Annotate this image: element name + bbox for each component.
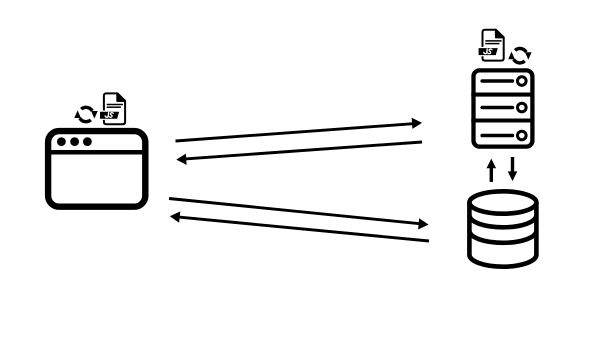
js file icon (server) — [478, 30, 504, 61]
arrow: browser to server (request) — [176, 118, 423, 141]
sync icon (client) — [74, 107, 97, 121]
arrow: server to database (down) — [508, 157, 518, 181]
arrow: server to browser (response 2) — [170, 211, 429, 241]
arrow: database to server (up) — [487, 159, 497, 182]
database cylinder — [469, 191, 536, 266]
js file icon (client) — [99, 93, 125, 124]
sync icon (server) — [508, 48, 531, 62]
browser window (client) — [46, 131, 149, 207]
server rack U1 — [471, 70, 534, 146]
arrow: browser to server (request 2) — [169, 199, 429, 230]
arrow: server to browser (response) — [176, 142, 422, 165]
